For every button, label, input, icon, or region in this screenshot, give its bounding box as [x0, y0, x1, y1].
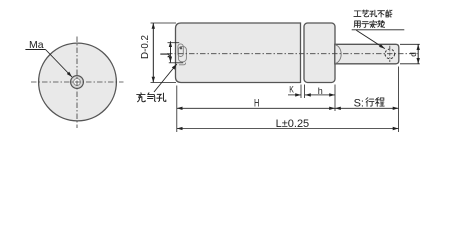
dim D-0.2 dimension line upper arrow — [152, 23, 154, 83]
note leader arrow — [356, 30, 385, 48]
horizontal centerline of circle — [31, 81, 124, 83]
main barrel (side view) — [176, 23, 301, 83]
dim D-0.2 bottom extension line — [151, 82, 177, 84]
svg-text:K: K — [289, 84, 294, 95]
charge hole dim label J (rotated) — [160, 54, 169, 57]
extension line left (body end) — [176, 86, 178, 133]
label charge hole 充气孔 — [137, 93, 166, 102]
svg-text:Ma: Ma — [29, 39, 44, 51]
left view circle (body front) — [39, 43, 117, 121]
note underline — [352, 29, 405, 31]
svg-text:S:: S: — [354, 97, 364, 109]
charge hole height dim: top ext — [168, 42, 180, 44]
main centerline — [167, 53, 418, 55]
dim L line — [177, 128, 287, 130]
Ma leader arrow — [46, 50, 73, 78]
dim H line — [177, 107, 255, 109]
dim d line lower arrow — [417, 44, 419, 64]
dim K extension line right — [304, 85, 306, 99]
charge hole capsule — [178, 44, 183, 57]
charge hole passage dot — [180, 47, 182, 49]
svg-text:h: h — [318, 86, 323, 96]
dim h line right arrow — [320, 94, 335, 96]
dim d bottom extension — [400, 63, 420, 65]
svg-text:L±0.25: L±0.25 — [276, 118, 310, 130]
collar after groove — [304, 23, 335, 83]
extension line right (rod end) — [398, 67, 400, 133]
dim D-0.2 lower arrow — [152, 23, 154, 83]
dim K extension line left — [300, 85, 302, 99]
rod base dome arc — [335, 45, 341, 64]
charge hole height dim line down arrow — [169, 41, 171, 62]
dim D-0.2 top extension line — [151, 22, 177, 24]
charge hole height dim: bottom ext — [169, 62, 183, 64]
svg-text:D-0.2: D-0.2 — [140, 35, 151, 59]
extension line mid (collar end) — [334, 85, 336, 112]
process hole vertical centerline — [389, 46, 391, 62]
charge hole leader — [154, 64, 177, 92]
charge hole height dim line up arrow — [169, 41, 171, 62]
svg-text:H: H — [254, 98, 259, 110]
dim h line left arrow — [305, 94, 320, 96]
dim K line with arrow — [288, 94, 301, 96]
Ma underline — [25, 49, 45, 51]
piston rod — [335, 44, 399, 64]
svg-text:d: d — [409, 52, 418, 57]
charge hole lower hidden line — [179, 63, 186, 65]
process hole (dashed circle) — [385, 49, 395, 59]
dim d top extension — [400, 43, 420, 45]
center hole inner — [74, 79, 81, 86]
dim d line upper arrow — [417, 44, 419, 64]
dim S line — [335, 107, 365, 109]
vertical centerline of circle — [76, 37, 78, 129]
note 工艺孔不能/用于安装 — [354, 10, 392, 28]
center hole outer ring (port) — [71, 76, 84, 89]
charge hole counterbore outline — [178, 46, 186, 61]
